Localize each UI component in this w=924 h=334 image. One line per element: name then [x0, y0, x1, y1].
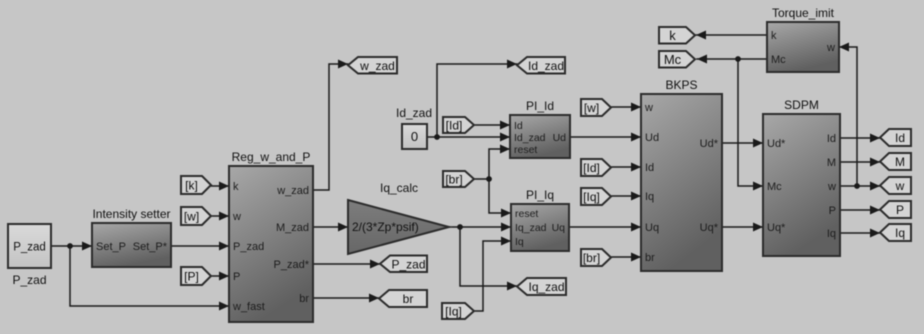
svg-text:Mc: Mc [664, 52, 682, 67]
svg-text:Uq*: Uq* [700, 222, 719, 234]
svg-text:Id_zad: Id_zad [514, 132, 546, 144]
svg-text:P: P [829, 205, 836, 217]
svg-text:Ud: Ud [645, 132, 659, 144]
svg-text:Id_zad: Id_zad [396, 106, 432, 120]
svg-text:w_zad: w_zad [359, 59, 395, 73]
svg-text:[Id]: [Id] [446, 119, 463, 133]
svg-text:[w]: [w] [584, 101, 599, 115]
svg-text:Iq: Iq [515, 236, 524, 248]
svg-text:w: w [232, 211, 241, 223]
svg-text:reset: reset [514, 144, 537, 156]
svg-text:P: P [896, 203, 904, 217]
svg-text:Iq: Iq [895, 226, 905, 240]
svg-text:w: w [827, 181, 836, 193]
svg-text:P_zad: P_zad [12, 273, 46, 287]
svg-text:Iq_zad: Iq_zad [528, 280, 564, 294]
svg-text:Uq: Uq [645, 222, 659, 234]
svg-text:w_zad: w_zad [276, 185, 309, 197]
svg-text:M: M [895, 155, 905, 169]
svg-text:Id: Id [895, 131, 905, 145]
svg-text:k: k [771, 30, 777, 42]
svg-text:reset: reset [515, 208, 538, 220]
svg-text:M_zad: M_zad [276, 222, 309, 234]
svg-text:Set_P: Set_P [96, 241, 126, 253]
svg-text:Ud*: Ud* [700, 138, 719, 150]
svg-text:Torque_imit: Torque_imit [772, 6, 835, 20]
svg-text:w_fast: w_fast [232, 301, 265, 313]
svg-text:Mc: Mc [767, 181, 782, 193]
svg-text:PI_Id: PI_Id [526, 99, 554, 113]
svg-text:[Iq]: [Iq] [445, 305, 462, 319]
svg-text:BKPS: BKPS [665, 78, 697, 92]
svg-text:k: k [233, 181, 239, 193]
svg-text:[br]: [br] [583, 251, 600, 265]
svg-text:PI_Iq: PI_Iq [526, 188, 554, 202]
svg-text:P_zad: P_zad [391, 257, 425, 271]
svg-text:Id_zad: Id_zad [528, 59, 564, 73]
svg-text:br: br [403, 292, 414, 306]
svg-text:P_zad: P_zad [233, 241, 264, 253]
svg-text:[w]: [w] [184, 210, 199, 224]
svg-text:2/(3*Zp*psif): 2/(3*Zp*psif) [352, 220, 419, 234]
svg-text:Mc: Mc [771, 54, 786, 66]
svg-text:P: P [233, 271, 240, 283]
svg-text:Uq*: Uq* [767, 222, 786, 234]
svg-text:[k]: [k] [185, 179, 198, 193]
svg-text:Id: Id [827, 133, 836, 145]
svg-text:k: k [669, 28, 676, 43]
svg-text:[Iq]: [Iq] [583, 190, 600, 204]
svg-text:M: M [827, 157, 836, 169]
svg-text:[Id]: [Id] [583, 161, 600, 175]
svg-text:SDPM: SDPM [784, 98, 819, 112]
svg-text:P_zad: P_zad [13, 242, 46, 254]
svg-text:Id: Id [514, 120, 523, 132]
svg-text:br: br [299, 293, 309, 305]
svg-text:Ud*: Ud* [767, 138, 786, 150]
svg-text:Iq: Iq [645, 191, 654, 203]
svg-text:Intensity setter: Intensity setter [92, 207, 170, 221]
svg-text:br: br [645, 252, 655, 264]
svg-text:Uq: Uq [552, 222, 566, 234]
svg-text:Id: Id [645, 162, 654, 174]
svg-text:w: w [895, 179, 905, 193]
svg-text:[P]: [P] [184, 270, 199, 284]
svg-text:w: w [644, 102, 653, 114]
svg-text:Iq_zad: Iq_zad [515, 222, 547, 234]
svg-text:Set_P*: Set_P* [133, 241, 168, 253]
svg-text:Iq_calc: Iq_calc [380, 181, 418, 195]
svg-text:[br]: [br] [445, 173, 462, 187]
svg-text:P_zad*: P_zad* [274, 259, 310, 271]
svg-text:Ud: Ud [553, 132, 567, 144]
svg-text:Iq: Iq [827, 228, 836, 240]
svg-text:Reg_w_and_P: Reg_w_and_P [232, 150, 311, 164]
svg-text:0: 0 [411, 129, 418, 144]
svg-text:w: w [826, 42, 835, 54]
